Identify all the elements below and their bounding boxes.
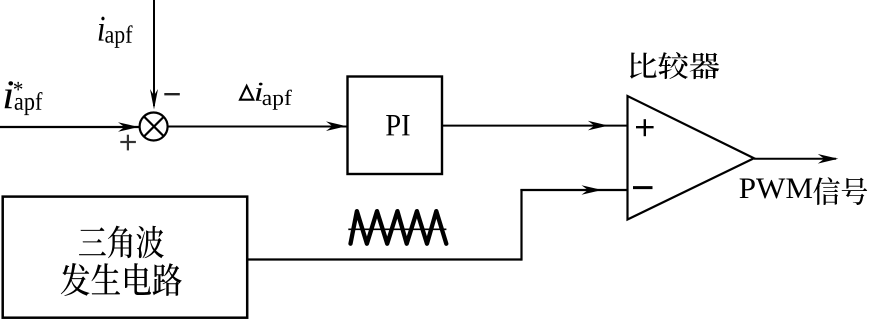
summing junction X cross bbox=[144, 117, 164, 137]
arrowhead: right into summing junction bbox=[118, 122, 139, 132]
axis line through triangle-wave symbol bbox=[348, 228, 446, 230]
label 发生电路 (generator circuit, line 2) bbox=[61, 263, 182, 296]
arrowhead: down into summing junction bbox=[150, 89, 158, 110]
wire: vertical riser to comparator - input bbox=[520, 189, 522, 261]
plus sign inside comparator bbox=[636, 119, 654, 136]
label i (feedback current i_apf) bbox=[99, 17, 105, 41]
wire: comparator - input (horizontal) bbox=[520, 189, 627, 191]
wire: i_apf feedback input (vertical from top edge) bbox=[153, 0, 155, 106]
arrowhead: into PI block bbox=[326, 121, 347, 131]
triangle wave generator block bbox=[3, 197, 248, 318]
arrowhead: on + input wire bbox=[588, 121, 609, 131]
arrowhead: output bbox=[818, 154, 839, 164]
label subscript apf (feedback current) bbox=[105, 25, 132, 48]
triangle-wave symbol bbox=[351, 211, 447, 244]
wire: generator block output (horizontal) bbox=[248, 258, 522, 260]
label 信号 (signal) bbox=[813, 177, 867, 205]
label PWM (output signal) bbox=[740, 179, 813, 199]
minus sign at feedback input bbox=[164, 93, 180, 95]
comparator U1 (triangle) bbox=[628, 96, 755, 220]
arrowhead: on - input wire bbox=[582, 185, 603, 195]
label Delta (current error term) bbox=[240, 86, 253, 100]
wire: summing junction to PI block bbox=[168, 126, 347, 128]
wire: PI block to comparator + input bbox=[442, 125, 628, 127]
label subscript apf (current error) bbox=[263, 90, 292, 110]
label superscript * bbox=[14, 82, 23, 91]
PI regulator block bbox=[348, 77, 443, 175]
label 比较器 (comparator) bbox=[630, 52, 719, 79]
label PI bbox=[386, 115, 410, 135]
plus sign at reference input bbox=[120, 135, 136, 151]
label 三角波 (triangle wave, line 1) bbox=[79, 226, 164, 259]
wire: comparator output bbox=[754, 158, 836, 160]
label i (reference current i*_apf) bbox=[5, 81, 14, 108]
label i (current error) bbox=[256, 83, 263, 101]
summing junction circle bbox=[140, 113, 168, 141]
minus sign inside comparator bbox=[633, 186, 653, 189]
wire: i*_apf reference input (horizontal from left edge) bbox=[0, 126, 139, 128]
label subscript apf (reference current) bbox=[15, 92, 43, 115]
